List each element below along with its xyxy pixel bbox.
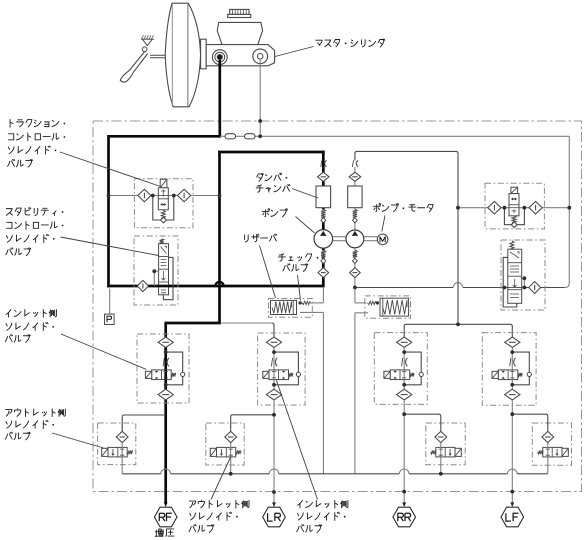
SC1 top spring bbox=[160, 239, 164, 244]
inlet valve RF: bypass loop bbox=[166, 352, 183, 385]
orifice L bbox=[325, 160, 327, 167]
traction control solenoid valve R: assembly box bbox=[485, 183, 544, 229]
SC2 bypass loop bbox=[503, 257, 517, 307]
SC1 bypass loop bbox=[163, 257, 173, 299]
inlet valve RR: assembly box bbox=[374, 333, 427, 405]
leader: stability valve bbox=[61, 237, 159, 256]
outlet valve RR: branch wire bbox=[404, 414, 441, 437]
junction dots top bbox=[258, 119, 262, 123]
inlet valve RR: solenoid bbox=[384, 371, 390, 378]
wire: top horizontal to right bbox=[220, 135, 569, 137]
relief ball R1 bbox=[353, 218, 358, 223]
inlet valve RR: orifice bbox=[406, 358, 408, 367]
corner: right vertical to stability line bbox=[565, 283, 570, 288]
wire: reservoir L return bbox=[300, 311, 323, 313]
wheel RR bbox=[393, 507, 416, 527]
boundary crossing dots bbox=[272, 490, 276, 494]
wire: bold pump discharge chain bbox=[322, 151, 325, 210]
inlet valve RR: filter diamond top bbox=[397, 337, 412, 347]
inlet valve LF: spring bbox=[518, 373, 522, 377]
wire: LR wheel line bbox=[273, 400, 275, 503]
test port P stub bbox=[109, 289, 111, 315]
SC1 filter diamond bbox=[137, 280, 148, 291]
inlet valve RF: filter diamond top bbox=[158, 337, 173, 347]
TC1 filter diamond left bbox=[138, 189, 151, 202]
brake pedal arm bbox=[129, 52, 144, 71]
outlet valve RR: bottom leg bbox=[440, 443, 442, 448]
label: check valve bbox=[278, 254, 311, 261]
inlet valve LF: orifice bbox=[514, 358, 516, 367]
inlet valve LF: filter diamond bottom bbox=[505, 389, 520, 400]
outlet valve RF: spring bbox=[127, 450, 132, 454]
inlet valve RF: port dots bbox=[164, 350, 168, 354]
SC1 pilot branch bbox=[154, 270, 158, 272]
outlet valve LR: spring bbox=[236, 450, 241, 454]
master cylinder reservoir tank bbox=[217, 22, 262, 44]
inlet valve RF: body bbox=[152, 370, 172, 380]
reservoir filler cap bbox=[230, 9, 249, 14]
outlet valve LF: filter diamond bbox=[542, 431, 554, 442]
wheel RF bbox=[154, 507, 177, 527]
wire: right stability line bbox=[463, 287, 565, 289]
wheel LR bbox=[263, 507, 286, 527]
spring L2 bbox=[321, 250, 325, 257]
outlet valve LF: bottom leg bbox=[547, 443, 549, 448]
leader: traction valve bbox=[60, 152, 161, 187]
wire: RR wheel line bbox=[403, 400, 405, 503]
outlet valve LR: body bbox=[217, 447, 236, 457]
relief ball R2 bbox=[353, 258, 358, 263]
outlet valve LR: filter diamond bbox=[225, 431, 237, 442]
inlet valve LF: solenoid bbox=[492, 371, 498, 378]
TC1 return spring bbox=[161, 210, 165, 218]
reservoir L: cylinder bbox=[271, 300, 297, 314]
master cylinder port 2 bbox=[253, 49, 268, 64]
inlet valve LR: body bbox=[269, 370, 289, 380]
label: pump motor bbox=[373, 204, 433, 211]
inlet valve LF: filter diamond top bbox=[505, 337, 520, 347]
leader: damper chamber bbox=[292, 189, 318, 199]
outlet valve LF: assembly box bbox=[532, 423, 571, 465]
inlet valve LF: line bbox=[511, 348, 513, 390]
inlet valve RR: filter diamond bottom bbox=[397, 389, 412, 400]
inlet valve RR: line bbox=[403, 348, 405, 390]
damper chamber R bbox=[348, 186, 362, 208]
outlet valve LR: solenoid bbox=[210, 448, 216, 456]
reservoir R: cylinder bbox=[380, 298, 409, 316]
label: outlet solenoid valve B bbox=[189, 500, 249, 508]
inlet valve RF: solenoid bbox=[145, 371, 151, 378]
wire: bold pump-module left edge bbox=[218, 151, 221, 323]
connector fitting 2 bbox=[245, 134, 256, 139]
inlet valve LR: port dots bbox=[272, 350, 276, 354]
inlet valve RF: spring bbox=[171, 373, 175, 377]
inlet valve RR: bypass loop bbox=[404, 352, 421, 385]
TC2 solenoid bbox=[511, 187, 518, 193]
outlet valve LF: branch wire bbox=[512, 414, 548, 437]
label: outlet solenoid valve L bbox=[6, 409, 66, 417]
relief ball L1 bbox=[321, 218, 326, 223]
wire: bold suction horizontal bbox=[107, 285, 323, 288]
wire: bold pump-module top edge bbox=[218, 151, 324, 154]
label: inlet solenoid valve B bbox=[298, 500, 348, 508]
leader: outlet valve B bbox=[211, 457, 231, 500]
TC1 filter diamond right bbox=[178, 189, 191, 202]
inlet valve LR: solenoid bbox=[263, 371, 269, 378]
reservoir L: check ball bbox=[299, 301, 302, 304]
outlet valve RR: solenoid bbox=[455, 448, 461, 456]
label: damper chamber bbox=[257, 173, 281, 181]
label: master cylinder leader bbox=[275, 47, 314, 57]
arrow: RR arrowhead bbox=[402, 502, 406, 507]
master cylinder body bbox=[206, 45, 274, 66]
wire: bold RF wheel line bbox=[164, 323, 167, 503]
outlet valve RF: assembly box bbox=[98, 423, 136, 465]
inlet valve LR: filter diamond top bbox=[266, 337, 281, 347]
reservoir R: box bbox=[365, 296, 411, 318]
pump R bbox=[346, 230, 364, 248]
inlet valve LR: line bbox=[273, 348, 275, 390]
wire: LR feed bbox=[221, 322, 272, 324]
inlet valve LR: orifice bbox=[275, 358, 277, 367]
wire: right traction line bbox=[458, 207, 569, 209]
inlet valve RR: port dots bbox=[402, 350, 406, 354]
outlet valve RF: bottom leg bbox=[121, 443, 123, 448]
label: inlet solenoid valve L bbox=[6, 309, 56, 317]
outlet valve LF: body bbox=[543, 447, 562, 457]
TC2 filter diamond left bbox=[488, 201, 501, 214]
stability control solenoid valve R: assembly box bbox=[501, 240, 545, 310]
wire: port2 down bbox=[259, 59, 261, 136]
wire: bold left vertical bbox=[107, 135, 110, 287]
wire: bold master port1 down bbox=[218, 60, 221, 136]
outlet valve RF: body bbox=[108, 447, 127, 457]
inlet valve LF: bypass loop bbox=[512, 352, 529, 385]
pump motor M bbox=[377, 234, 388, 245]
arrow: LF arrowhead bbox=[510, 502, 514, 507]
inlet valve LF: port dots bbox=[510, 350, 514, 354]
inlet valve RR: spring bbox=[410, 373, 414, 377]
TC2 bypass loop bbox=[504, 208, 524, 225]
outlet valve LR: branch wire bbox=[231, 415, 274, 437]
SC2 valve body bbox=[508, 249, 522, 303]
outlet valve RR: assembly box bbox=[426, 423, 465, 465]
inlet valve RF: orifice bbox=[167, 358, 169, 367]
wire: return line bbox=[122, 473, 161, 475]
HU outer dash-dot boundary bbox=[93, 121, 582, 492]
wheel LF bbox=[501, 507, 524, 527]
SC2 filter diamond bbox=[529, 282, 541, 294]
inlet valve LR: filter diamond bottom bbox=[266, 389, 281, 400]
arrow: RF line arrowhead bbox=[164, 502, 168, 507]
leader: inlet valve B bbox=[276, 380, 317, 500]
TC1 bypass loop bbox=[153, 196, 174, 221]
leader: check valve bbox=[298, 275, 301, 301]
TC2 bypass check diamond bbox=[511, 222, 517, 228]
spring R2 bbox=[353, 250, 357, 257]
inlet valve RF: assembly box bbox=[137, 334, 189, 403]
check valve diamond L upper bbox=[318, 172, 330, 181]
inlet valve LF: bypass check ball bbox=[527, 372, 531, 376]
test port P box bbox=[105, 314, 115, 324]
inlet valve LR: assembly box bbox=[258, 333, 306, 405]
TC1 valve body bbox=[158, 188, 168, 210]
outlet valve LF: spring bbox=[538, 450, 543, 454]
wire: right pump top line bbox=[355, 151, 458, 322]
wire: right vertical bbox=[568, 136, 570, 283]
TC1 line bbox=[109, 195, 220, 197]
spring R1 bbox=[353, 209, 357, 217]
outlet valve LF: solenoid bbox=[562, 448, 568, 456]
label: traction control solenoid valve bbox=[10, 119, 59, 127]
TC2 valve body bbox=[509, 194, 519, 216]
wire: bold lower horizontal to RF column bbox=[164, 322, 220, 325]
TC1 bypass check diamond bbox=[161, 217, 167, 223]
outlet valve RR: filter diamond bbox=[435, 431, 447, 442]
pump L bbox=[314, 230, 333, 249]
leader: inlet valve L bbox=[61, 334, 147, 370]
outlet valve RF: filter diamond bbox=[116, 431, 128, 442]
check valve diamond R lower bbox=[350, 268, 361, 278]
check valve diamond L lower bbox=[318, 268, 329, 278]
outlet valve RF: solenoid bbox=[102, 448, 108, 456]
leader: reservoir bbox=[260, 246, 276, 299]
reservoir L: box bbox=[269, 299, 313, 318]
arrow: LR arrowhead bbox=[272, 502, 276, 507]
reservoir R: check ball bbox=[376, 301, 379, 304]
TC2 port dots bbox=[503, 206, 507, 210]
inlet valve LR: spring bbox=[289, 373, 293, 377]
inlet valve RR: body bbox=[390, 370, 410, 380]
brake pedal pad bbox=[120, 71, 133, 83]
inlet valve LF: body bbox=[498, 370, 518, 380]
booster mounting flange bbox=[201, 39, 207, 69]
leader: pump motor bbox=[382, 216, 385, 232]
relief ball L2 bbox=[321, 258, 326, 263]
outlet valve RR: body bbox=[436, 447, 455, 457]
inlet valve RF: bypass check ball bbox=[181, 372, 185, 376]
SC2 pilot branch bbox=[522, 277, 525, 279]
inlet valve LR: bypass loop bbox=[274, 352, 298, 385]
master cylinder port 1 bbox=[212, 50, 227, 65]
orifice R bbox=[356, 160, 358, 167]
outlet valve RR: branch junction dot bbox=[402, 412, 406, 416]
inlet valve LF: assembly box bbox=[482, 333, 536, 406]
traction control solenoid valve L: assembly box bbox=[134, 179, 193, 228]
damper chamber L bbox=[316, 186, 331, 208]
TC2 return spring bbox=[512, 216, 516, 223]
inlet valve RR: bypass check ball bbox=[419, 372, 423, 376]
TC1 solenoid bbox=[160, 179, 167, 188]
outlet valve RF: branch wire bbox=[122, 415, 166, 437]
SC1 valve body bbox=[159, 244, 169, 295]
outlet valve RR: spring bbox=[431, 450, 436, 454]
inlet valve RF: filter diamond bottom bbox=[158, 389, 173, 400]
inlet valve LR: bypass check ball bbox=[296, 372, 300, 376]
outlet valve LF: branch junction dot bbox=[510, 412, 514, 416]
return line junction dots bbox=[229, 472, 233, 476]
wire: LF wheel line bbox=[511, 400, 513, 503]
wire: bold top horizontal bbox=[109, 135, 222, 138]
connector fitting 1 bbox=[225, 134, 236, 139]
label: reservoir bbox=[245, 234, 277, 242]
stability control solenoid valve L: assembly box bbox=[134, 236, 178, 305]
brake pedal clevis bbox=[142, 47, 147, 52]
wire: right pump chain segments bbox=[354, 167, 356, 209]
check valve diamond R upper bbox=[349, 172, 361, 181]
leader: outlet valve L bbox=[52, 433, 104, 448]
brake booster shell bbox=[165, 3, 200, 107]
wire: reservoir R return bbox=[355, 312, 368, 314]
outlet valve LR: branch junction dot bbox=[272, 413, 276, 417]
brake pedal pivot mount bbox=[141, 38, 154, 40]
pump drive shaft bbox=[333, 236, 346, 238]
label: stability control solenoid valve bbox=[6, 208, 56, 216]
TC1 port dots bbox=[151, 194, 155, 198]
label: pump bbox=[262, 210, 286, 217]
wire: reservoir R to pump suction bbox=[355, 302, 367, 304]
outlet valve LR: bottom leg bbox=[230, 443, 232, 448]
SC2 top spring bbox=[510, 241, 514, 249]
wire: reservoir L to pump suction bbox=[310, 302, 323, 304]
leader: pump bbox=[296, 217, 315, 234]
TC2 filter diamond right bbox=[529, 201, 542, 214]
booster pushrod bbox=[150, 55, 172, 58]
label: master cylinder bbox=[316, 39, 385, 47]
outlet valve LR: assembly box bbox=[206, 423, 244, 465]
label: pressure increase bbox=[155, 529, 174, 537]
wire: RR-LF feed line bbox=[404, 324, 512, 337]
spring L1 bbox=[321, 209, 325, 217]
